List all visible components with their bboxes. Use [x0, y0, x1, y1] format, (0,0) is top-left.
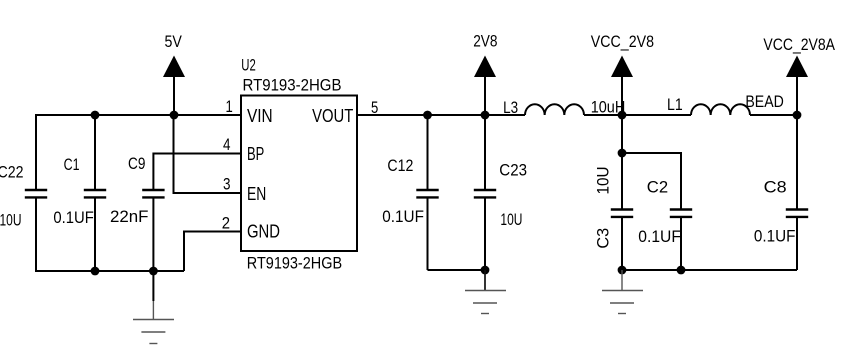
svg-text:5V: 5V: [165, 32, 183, 51]
node VIN junction C1: [91, 111, 100, 120]
wire C22 top lead: [35, 114, 37, 190]
wire C2 branch: [622, 153, 681, 209]
capacitor C9: [110, 154, 165, 226]
wire L3 to L1 rail: [584, 114, 691, 116]
svg-text:C3: C3: [594, 228, 613, 249]
power symbol 2V8: [473, 32, 497, 77]
svg-text:C9: C9: [128, 154, 145, 173]
wire C8 bottom lead: [796, 217, 798, 270]
svg-text:VCC_2V8A: VCC_2V8A: [763, 35, 835, 54]
svg-text:GND: GND: [247, 222, 280, 242]
svg-text:U2: U2: [241, 56, 256, 75]
capacitor C8: [754, 177, 808, 245]
capacitor C1: [53, 155, 106, 227]
svg-text:2: 2: [222, 214, 230, 233]
wire C2 bottom lead: [680, 217, 682, 270]
wire C1 bottom lead: [94, 198, 96, 272]
wire C22 bottom lead: [35, 198, 37, 273]
wire C3 top lead: [621, 115, 623, 209]
svg-text:10U: 10U: [0, 211, 22, 230]
svg-text:10U: 10U: [594, 167, 613, 195]
svg-text:10U: 10U: [500, 210, 522, 229]
wire right bottom rail: [622, 269, 797, 271]
svg-text:RT9193-2HGB: RT9193-2HGB: [243, 75, 342, 94]
inductor L1 (BEAD): [667, 92, 784, 115]
wire L1 out: [750, 114, 797, 116]
svg-text:VOUT: VOUT: [312, 106, 353, 126]
wire C23 bottom lead: [484, 198, 486, 271]
power symbol VCC_2V8: [591, 32, 654, 77]
node gnd junction C2: [677, 266, 686, 275]
svg-text:VCC_2V8: VCC_2V8: [591, 32, 654, 51]
wire VCC_2V8 stem: [621, 76, 623, 115]
svg-text:4: 4: [223, 135, 231, 154]
node gnd junction C23: [481, 266, 490, 275]
wire 5V stem: [173, 76, 175, 115]
capacitor C23: [474, 160, 527, 229]
wire C12 top lead: [427, 115, 429, 190]
ground left: [133, 301, 174, 344]
svg-text:L3: L3: [503, 98, 518, 117]
wire VCC_2V8A stem: [796, 76, 798, 115]
wire EN tie to VIN rail: [174, 115, 242, 193]
svg-text:0.1UF: 0.1UF: [53, 208, 93, 227]
svg-text:VIN: VIN: [247, 106, 273, 126]
wire left ground stem: [152, 271, 154, 301]
ground middle: [465, 270, 506, 314]
svg-text:C12: C12: [387, 156, 413, 175]
svg-text:C2: C2: [647, 177, 668, 196]
svg-text:5: 5: [371, 98, 378, 117]
node VCC_2V8A junction: [793, 111, 802, 120]
wire mid bottom rail: [428, 269, 486, 271]
node VOUT junction C12: [423, 111, 432, 120]
capacitor C22: [0, 163, 47, 230]
svg-text:L1: L1: [667, 95, 683, 114]
wire C8 top lead: [796, 115, 798, 209]
svg-text:EN: EN: [247, 184, 266, 204]
node gnd junction C1: [91, 267, 100, 276]
node gnd junction C9: [149, 267, 158, 276]
power symbol VCC_2V8A: [763, 35, 835, 77]
node VCC_2V8 junction: [618, 111, 627, 120]
svg-text:C8: C8: [764, 177, 787, 196]
wire C1 top lead: [94, 115, 96, 190]
svg-text:0.1UF: 0.1UF: [382, 207, 424, 226]
svg-text:C1: C1: [64, 155, 80, 174]
svg-text:C23: C23: [499, 160, 527, 179]
node C2 tee junction: [618, 149, 627, 158]
capacitor C3: [594, 167, 634, 249]
svg-text:3: 3: [223, 174, 231, 193]
wire GND pin 2: [184, 232, 241, 272]
wire C9 bottom lead: [152, 198, 154, 272]
svg-text:C22: C22: [0, 163, 24, 182]
inductor L3: [503, 97, 625, 117]
capacitor C12: [382, 156, 438, 226]
wire VIN rail top-left: [36, 114, 241, 116]
wire VOUT rail: [357, 114, 525, 116]
wire bottom-left ground rail: [35, 270, 184, 272]
svg-text:10uH: 10uH: [591, 97, 626, 116]
wire C12 bottom lead: [427, 198, 429, 271]
op-amp U2 regulator RT9193-2HGB body: [241, 56, 357, 273]
power symbol 5V: [163, 32, 185, 77]
node gnd junction C3: [618, 266, 627, 275]
svg-text:BP: BP: [247, 144, 264, 164]
wire 2V8 stem: [484, 76, 486, 115]
node VIN junction 5V/EN: [170, 111, 179, 120]
svg-text:1: 1: [226, 97, 233, 116]
svg-text:BEAD: BEAD: [745, 92, 783, 111]
capacitor C2: [638, 177, 692, 246]
svg-text:0.1UF: 0.1UF: [638, 227, 681, 246]
ground right: [602, 270, 643, 314]
svg-text:RT9193-2HGB: RT9193-2HGB: [247, 254, 342, 273]
node VOUT junction 2V8/C23: [481, 111, 490, 120]
svg-text:22nF: 22nF: [110, 207, 149, 226]
wire C23 top lead: [484, 115, 486, 190]
svg-text:2V8: 2V8: [473, 32, 497, 51]
wire BP to C9: [153, 154, 241, 190]
svg-text:0.1UF: 0.1UF: [754, 226, 796, 245]
wire C3 bottom lead: [621, 217, 623, 270]
